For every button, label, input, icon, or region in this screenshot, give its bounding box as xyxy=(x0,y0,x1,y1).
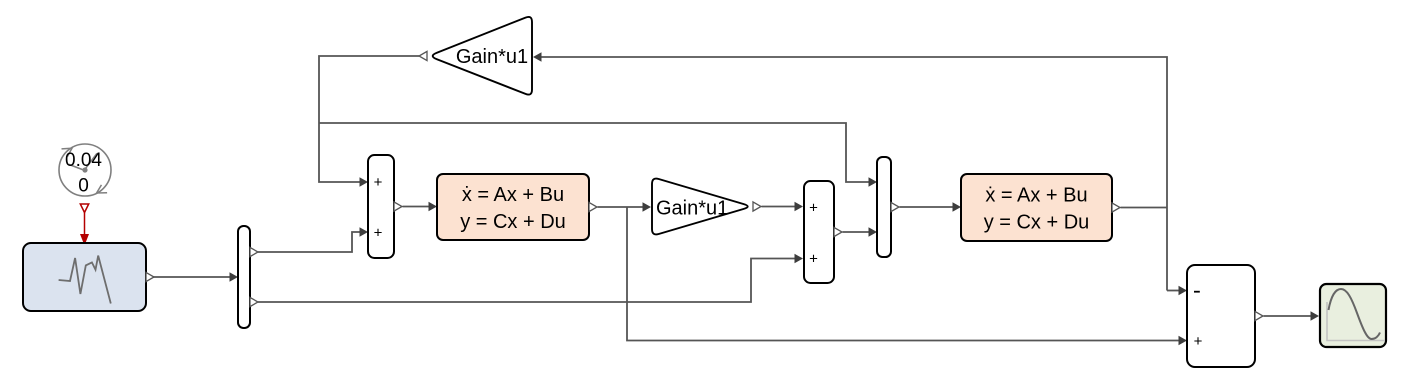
svg-text:y = Cx + Du: y = Cx + Du xyxy=(984,212,1090,234)
svg-text:+: + xyxy=(374,224,383,241)
svg-text:0.04: 0.04 xyxy=(65,150,102,171)
svg-text:Gain*u1: Gain*u1 xyxy=(456,46,528,68)
svg-text:+: + xyxy=(374,174,383,191)
svg-text:ẋ = Ax + Bu: ẋ = Ax + Bu xyxy=(462,184,564,206)
svg-text:+: + xyxy=(809,251,818,268)
svg-text:+: + xyxy=(1194,333,1203,350)
svg-text:+: + xyxy=(809,200,818,217)
svg-text:y = Cx + Du: y = Cx + Du xyxy=(460,211,566,233)
svg-text:ẋ = Ax + Bu: ẋ = Ax + Bu xyxy=(985,185,1087,207)
svg-text:Gain*u1: Gain*u1 xyxy=(656,198,728,220)
svg-text:0: 0 xyxy=(78,176,89,197)
